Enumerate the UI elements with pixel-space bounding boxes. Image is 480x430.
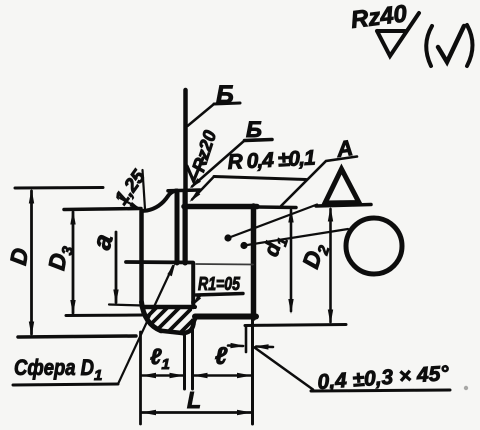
extension line right (L / chamfer) (251, 318, 254, 424)
scan artifact dot (464, 386, 468, 390)
chamfer dimension 1,25 with leader (111, 166, 150, 210)
part outline: sphere arc (142, 302, 162, 331)
part outline: body top edge (184, 204, 257, 210)
part outline: flange left edge (139, 211, 144, 302)
extension line l1/l boundary a (183, 334, 186, 389)
rotated roughness text Rz20 with check mark on face (187, 128, 220, 181)
dimension l (193, 343, 253, 378)
leader dot 2 to circle (240, 229, 348, 249)
chamfer note 0,4 +-0,3 x 45deg (255, 348, 451, 394)
part outline: body right edge (251, 206, 257, 318)
part outline: bottom step fillet (183, 317, 197, 333)
label B second (roughness callout) (190, 117, 273, 189)
fillet label R0,4 +-0,1 with underline and leader (190, 146, 317, 202)
dimension d1 (260, 208, 294, 315)
dimension a (86, 231, 143, 306)
bore fillet R1 (193, 302, 195, 307)
face line B (vertical extension) (183, 90, 188, 263)
part outline: face plateau (168, 188, 200, 192)
label B top with leader (188, 81, 241, 126)
default finish mark in parentheses (426, 25, 472, 66)
dimension D3 (43, 209, 143, 316)
datum label A with leader (281, 135, 357, 206)
surface finish symbol Rz40 (top right) (349, 0, 419, 56)
fillet note R1=0,5 with underline and leader (193, 274, 243, 305)
extension line l1/l boundary b (191, 320, 194, 389)
faint inner line to right edge (196, 263, 253, 266)
part outline: top chamfer curve (142, 191, 177, 212)
part outline: face double line left (175, 191, 180, 263)
internal top edge (126, 260, 193, 264)
extension line left (sphere end) (139, 332, 142, 424)
leader dot 1 to datum line (224, 205, 317, 242)
svg-text:L: L (187, 387, 201, 413)
part outline: face double line right (183, 191, 188, 263)
bore bottom line (142, 305, 193, 310)
dimension D (leftmost) (5, 188, 136, 338)
sphere note with leader (13, 263, 176, 386)
d1 top extension (257, 205, 296, 209)
svg-text:R1=05: R1=05 (198, 274, 241, 294)
circle (sphere detail balloon) (346, 218, 402, 274)
internal vertical edge (191, 263, 195, 303)
svg-text:ℓ: ℓ (215, 343, 228, 370)
part outline: body bottom edge (195, 314, 256, 320)
dimension D2 (245, 207, 346, 326)
part outline: flange bottom edge (161, 331, 184, 333)
dimension L (141, 387, 252, 415)
extension line chamfer left (245, 326, 248, 353)
D2 top extension line (triangle base line) (316, 205, 371, 207)
svg-text:R 0,4 ±0,1: R 0,4 ±0,1 (227, 146, 316, 174)
dimension l1 (141, 344, 185, 378)
datum triangle on D2 extension (325, 169, 359, 203)
hatching of section (133, 304, 215, 338)
chamfer dimension arrows 0,4 x 45 (228, 343, 273, 350)
svg-text:Сфера D1: Сфера D1 (14, 355, 102, 384)
